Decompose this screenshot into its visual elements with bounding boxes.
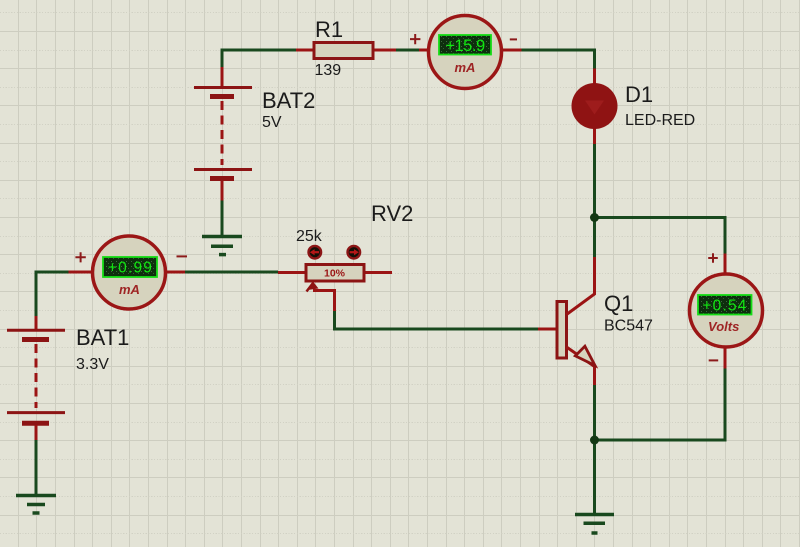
wire node A to voltmeter top <box>595 218 726 254</box>
svg-text:25k: 25k <box>296 228 323 245</box>
plus sign U3 <box>708 253 718 263</box>
minus sign U3 <box>709 359 719 361</box>
svg-text:5V: 5V <box>262 114 282 131</box>
node A junction <box>590 213 599 222</box>
wire BAT1 bottom to ground <box>35 440 38 495</box>
minus sign U2 <box>177 255 188 257</box>
ammeter U1 <box>419 16 522 89</box>
svg-text:10%: 10% <box>324 268 346 280</box>
RV2 increment button <box>348 246 361 259</box>
svg-text:Volts: Volts <box>708 319 739 334</box>
voltmeter U3 <box>690 254 763 369</box>
wire LED D1 to collector node <box>593 144 596 257</box>
svg-text:mA: mA <box>119 282 140 297</box>
svg-text:BAT1: BAT1 <box>76 325 129 350</box>
svg-text:+0.99: +0.99 <box>108 260 153 277</box>
resistor R1 <box>296 43 396 59</box>
wire ammeter U2 to RV2 pin 1 <box>185 271 278 274</box>
wire RV2 wiper to Q1 base <box>335 311 539 329</box>
svg-text:BAT2: BAT2 <box>262 88 315 113</box>
svg-text:Q1: Q1 <box>604 291 633 316</box>
minus sign U1 <box>510 38 517 40</box>
wire BAT1 top to ammeter U2 <box>36 272 69 316</box>
svg-text:D1: D1 <box>625 82 653 107</box>
svg-text:R1: R1 <box>315 17 343 42</box>
wire BAT2 bottom to ground <box>221 201 224 237</box>
wire emitter to node B and ground <box>593 385 596 513</box>
ground for BAT1 <box>16 496 56 514</box>
svg-text:+15.9: +15.9 <box>445 37 485 55</box>
svg-text:LED-RED: LED-RED <box>625 112 695 129</box>
wire voltmeter bottom to node B <box>595 369 726 441</box>
wire ammeter U1 to LED D1 <box>521 50 595 69</box>
svg-text:BC547: BC547 <box>604 318 653 335</box>
svg-text:139: 139 <box>315 62 342 79</box>
svg-text:mA: mA <box>455 60 476 75</box>
battery BAT2 <box>194 67 252 201</box>
ammeter U2 <box>69 236 186 309</box>
wire top from BAT2 to R1 <box>222 50 296 67</box>
ground for BAT2 <box>202 237 242 255</box>
node B junction <box>590 436 599 445</box>
RV2 decrement button <box>309 246 322 259</box>
ground main <box>575 515 614 534</box>
svg-text:RV2: RV2 <box>371 201 413 226</box>
svg-text:+0.54: +0.54 <box>702 298 747 315</box>
potentiometer RV2 <box>278 265 392 312</box>
transistor Q1 <box>538 257 595 385</box>
LED D1 <box>572 69 618 145</box>
plus sign U2 <box>75 252 85 262</box>
wire R1 to ammeter U1 <box>396 49 420 52</box>
plus sign U1 <box>410 34 420 44</box>
svg-text:3.3V: 3.3V <box>76 356 109 373</box>
battery BAT1 <box>7 316 65 440</box>
